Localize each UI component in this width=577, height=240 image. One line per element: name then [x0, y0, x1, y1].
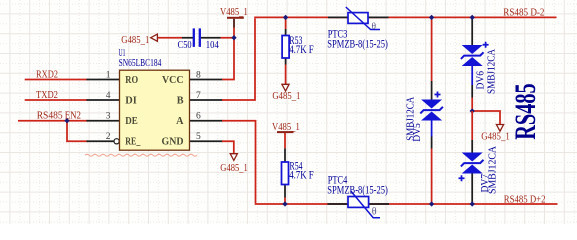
junction at C50/VCC: [231, 35, 236, 40]
svg-text:G485_1: G485_1: [481, 132, 510, 143]
power port G485_1 below R53: [282, 84, 289, 91]
pin 3 wire: [87, 120, 120, 122]
diode DV5 symbol: [420, 100, 443, 121]
junction R54 bottom: [282, 201, 287, 206]
svg-text:RXD2: RXD2: [36, 69, 58, 80]
junction EN2: [64, 118, 69, 123]
svg-text:104: 104: [206, 40, 219, 51]
svg-text:SN65LBC184: SN65LBC184: [119, 58, 162, 69]
svg-text:RS485 D+2: RS485 D+2: [504, 194, 546, 205]
svg-text:GND: GND: [162, 137, 184, 148]
svg-text:DI: DI: [125, 95, 137, 106]
pin 7 wire: [190, 99, 223, 101]
svg-text:SPMZB-8(15-25): SPMZB-8(15-25): [327, 184, 388, 196]
junction DV5 bottom: [429, 201, 434, 206]
svg-text:DV6: DV6: [475, 71, 486, 90]
svg-text:4.7K F: 4.7K F: [289, 44, 314, 56]
svg-text:6: 6: [196, 112, 201, 122]
junction tap: [470, 108, 475, 113]
svg-text:4: 4: [106, 91, 111, 101]
svg-text:RO: RO: [125, 75, 138, 86]
power port V485_1 top bar: [227, 17, 244, 19]
svg-text:θ: θ: [372, 22, 377, 32]
svg-text:RS485 D-2: RS485 D-2: [503, 7, 544, 18]
bottom rail wire: [255, 203, 558, 205]
power port V485_1 mid bar: [277, 131, 294, 133]
wire GND pin to G485_1: [222, 141, 234, 153]
capacitor C50 pins: [182, 37, 221, 39]
pin 2 wire: [87, 140, 115, 142]
power port G485_1 below pin 5: [230, 154, 237, 161]
svg-text:V485_1: V485_1: [220, 7, 248, 18]
pin 1 wire: [87, 79, 120, 81]
junction DV5 top: [429, 15, 434, 20]
svg-text:V485_1: V485_1: [272, 122, 300, 133]
svg-text:G485_1: G485_1: [220, 163, 248, 174]
resistor R54 branch: [284, 133, 286, 148]
svg-text:SMBJ12CA: SMBJ12CA: [486, 49, 497, 94]
diode DV7 branch: [471, 111, 473, 140]
svg-text:SPMZB-8(15-25): SPMZB-8(15-25): [327, 38, 388, 50]
svg-text:B: B: [177, 95, 184, 106]
resistor R53 body: [282, 36, 289, 59]
svg-text:DE: DE: [125, 116, 138, 127]
PTC3 body: [348, 13, 368, 24]
svg-text:RE_: RE_: [125, 137, 141, 148]
svg-text:TXD2: TXD2: [36, 90, 58, 101]
wire A to bottom rail: [222, 121, 256, 204]
svg-text:RS485: RS485: [509, 83, 542, 140]
resistor R53 branch: [285, 17, 287, 29]
IC U1 SN65LBC184 body: [120, 70, 190, 150]
pin 6 wire: [190, 120, 223, 122]
wire G485_1 tap: [472, 111, 500, 124]
wire RS485_EN2: [18, 121, 88, 142]
diode DV7 symbol: [461, 153, 484, 174]
pin 8 wire: [190, 79, 223, 81]
svg-text:8: 8: [196, 70, 201, 80]
wire C50 to junction: [158, 37, 235, 39]
svg-text:A: A: [176, 116, 184, 127]
pin 2 inversion bubble: [114, 139, 119, 144]
svg-text:G485_1: G485_1: [121, 35, 149, 46]
diode DV5 branch: [431, 17, 433, 81]
PTC3 pins: [328, 16, 389, 18]
svg-text:2: 2: [106, 132, 111, 142]
wire RXD2: [25, 79, 88, 81]
capacitor C50 plates: [194, 28, 200, 47]
wire B to top rail: [222, 18, 255, 100]
svg-text:5: 5: [196, 132, 201, 142]
wire TXD2: [25, 99, 88, 101]
svg-text:4.7K F: 4.7K F: [289, 170, 314, 182]
power port G485_1 mid-right: [496, 125, 503, 132]
top rail wire: [254, 16, 556, 18]
svg-text:SMBJ12CA: SMBJ12CA: [487, 146, 498, 194]
PTC3 diagonal: [346, 7, 380, 30]
pin 5 wire: [190, 140, 223, 142]
junction DV7 bottom: [470, 201, 475, 206]
power port G485_1 left arrow: [151, 34, 158, 41]
svg-text:VCC: VCC: [162, 75, 184, 86]
svg-text:1: 1: [106, 70, 111, 80]
PTC4 pins: [328, 203, 390, 205]
junction DV6 top: [470, 15, 475, 20]
diode DV6 symbol: [461, 45, 484, 66]
svg-text:G485_1: G485_1: [272, 91, 300, 102]
pin 4 wire: [87, 99, 120, 101]
svg-text:C50: C50: [178, 40, 192, 51]
diode DV6 branch: [471, 18, 473, 45]
PTC4 diagonal: [351, 191, 380, 218]
svg-text:3: 3: [106, 112, 111, 122]
svg-text:EN2: EN2: [65, 111, 81, 122]
svg-text:θ: θ: [372, 207, 377, 218]
PTC4 body: [348, 197, 369, 208]
junction R53 top: [283, 15, 288, 20]
resistor R54 body: [282, 162, 289, 185]
svg-text:SMBJ12CA: SMBJ12CA: [405, 96, 416, 140]
wire VCC to V485_1: [222, 38, 234, 80]
error squiggle under U1: [85, 154, 197, 156]
svg-text:RS485: RS485: [37, 111, 63, 122]
svg-text:7: 7: [196, 91, 201, 101]
